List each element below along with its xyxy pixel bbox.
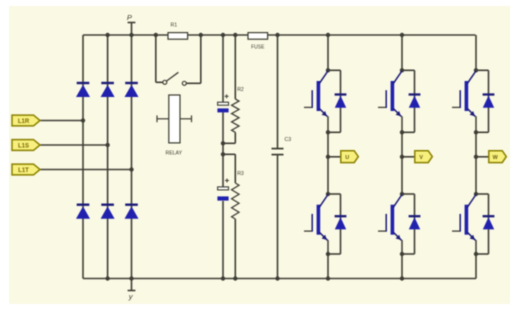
svg-text:C3: C3 [285, 137, 292, 143]
svg-text:U: U [345, 155, 349, 161]
svg-text:FUSE: FUSE [251, 44, 265, 50]
svg-text:V: V [419, 155, 423, 161]
svg-text:RELAY: RELAY [165, 150, 182, 156]
svg-text:R3: R3 [237, 171, 244, 177]
svg-text:L1T: L1T [18, 168, 29, 174]
svg-text:R1: R1 [171, 23, 178, 29]
svg-text:L1R: L1R [18, 119, 30, 125]
svg-text:R2: R2 [237, 87, 244, 93]
svg-text:L1S: L1S [18, 143, 29, 149]
